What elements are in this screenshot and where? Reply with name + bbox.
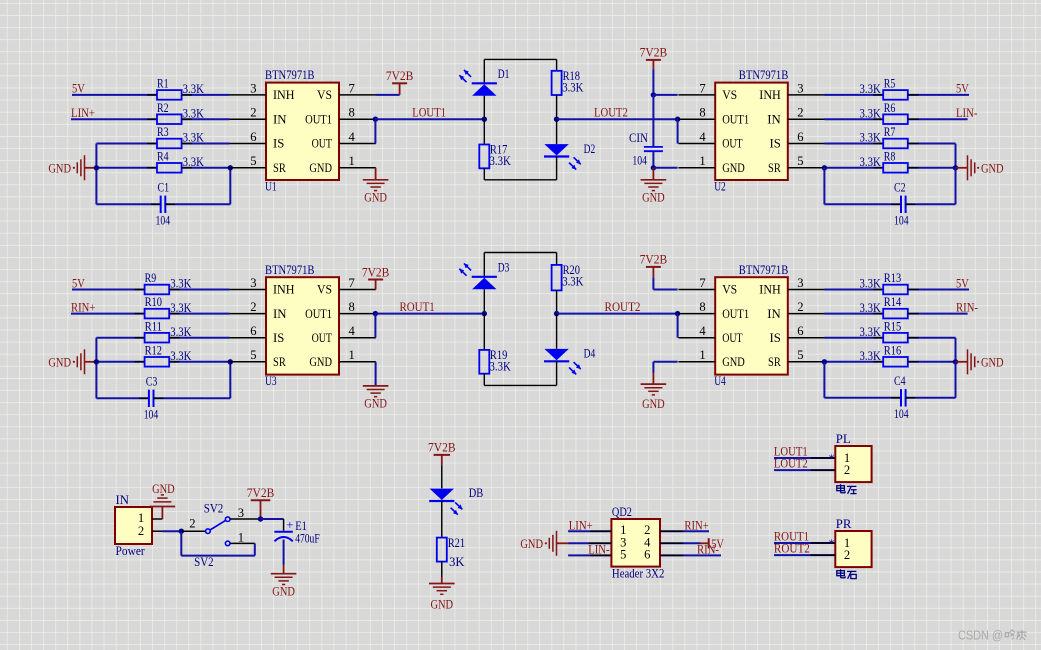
svg-text:R1: R1 [157,77,169,91]
svg-text:104: 104 [144,408,159,422]
U2 pin 6 (IS) right stub [788,143,825,145]
svg-text:5V: 5V [72,275,85,290]
wire DB to R21 [441,501,443,538]
LED DB [430,489,454,500]
svg-text:3: 3 [238,506,244,520]
svg-text:VS: VS [722,283,737,297]
resistor R9 [145,285,170,295]
junction C1 right [228,165,233,170]
svg-text:+: + [286,518,293,532]
svg-text:3: 3 [797,276,803,290]
U2 pin 3 (INH) right stub [788,94,825,96]
svg-text:7V2B: 7V2B [640,46,668,60]
junction bridge right [554,311,559,316]
svg-text:INH: INH [759,283,781,297]
svg-text:6: 6 [797,130,803,144]
junction right pin8 [675,311,680,316]
svg-text:C2: C2 [894,181,906,195]
svg-text:GND: GND [309,161,332,175]
U4 pin 2 (IN) right stub [788,313,825,315]
wire R4 to pin5 [182,167,230,169]
resistor R11 [145,333,170,343]
svg-text:RIN-: RIN- [697,542,719,557]
svg-text:R9: R9 [145,271,157,285]
svg-text:R11: R11 [145,319,162,333]
svg-text:GND: GND [431,598,454,612]
U3 pin 7 (VS) right stub [339,289,376,291]
svg-text:5: 5 [797,348,803,362]
connector IN (Power) body [115,507,152,544]
wire R7 corner [908,143,956,145]
U2 pin 1 (GND) left stub [678,167,715,169]
resistor R6 [883,114,908,124]
svg-text:3.3K: 3.3K [860,106,881,120]
wire pin4 to pin8 node [374,119,376,143]
wire left vertical [95,144,97,205]
svg-text:4: 4 [349,324,356,338]
ground port (left) [85,361,97,363]
junction right gnd [953,165,958,170]
svg-text:Power: Power [116,544,146,558]
svg-text:3: 3 [250,81,256,95]
svg-text:1: 1 [349,348,355,362]
svg-text:LOUT1: LOUT1 [412,105,446,120]
wire 7V2B to U2 pin7 [653,94,677,96]
svg-text:D4: D4 [584,347,596,361]
svg-text:R3: R3 [157,125,169,139]
U3 pin 3 (INH) left stub [229,289,266,291]
svg-text:2: 2 [797,300,803,314]
svg-text:3.3K: 3.3K [562,80,583,94]
U1 pin 4 (OUT) right stub [339,143,376,145]
svg-text:BTN7971B: BTN7971B [739,68,789,82]
resistor R1 [157,90,182,100]
U4 pin 5 (SR) right stub [788,361,825,363]
IC U3 BTN7971B body [266,277,339,374]
U2 pin 7 (VS) left stub [678,94,715,96]
wire R21 to ground [441,562,443,578]
svg-text:GND: GND [272,585,295,599]
svg-text:R16: R16 [884,343,901,357]
svg-text:D2: D2 [584,142,596,156]
wire pin2 to R14 [824,313,883,315]
U2 pin 5 (SR) right stub [788,167,825,169]
svg-text:7V2B: 7V2B [362,265,390,279]
svg-text:3.3K: 3.3K [490,154,511,168]
svg-text:OUT1: OUT1 [722,307,749,321]
IC U4 BTN7971B body [715,277,788,374]
wire D1 anode down [483,96,485,120]
connector QD2 Header 3X2 body [611,519,660,567]
junction 7V2B/CIN [651,92,656,97]
svg-text:SV2: SV2 [194,555,214,569]
svg-text:2: 2 [250,300,256,314]
U3 pin 8 (OUT1) right stub [339,313,376,315]
wire 7V2B to E1 [261,518,284,520]
wire R11 to pin6 [169,337,229,339]
svg-text:OUT: OUT [312,137,333,151]
label dian-you (PR) [837,571,845,576]
svg-text:2: 2 [189,517,195,531]
svg-text:3.3K: 3.3K [860,82,881,96]
svg-text:1: 1 [349,154,355,168]
junction 7V2B switch [258,516,263,521]
svg-text:SV2: SV2 [204,502,224,516]
svg-text:ROUT2: ROUT2 [605,299,641,314]
svg-text:7: 7 [699,276,705,290]
capacitor E1 electrolytic [274,531,292,533]
svg-text:RIN+: RIN+ [684,517,708,532]
svg-text:RIN-: RIN- [956,299,978,314]
resistor R19 [483,314,485,350]
svg-text:SR: SR [768,355,781,369]
svg-text:5: 5 [250,348,256,362]
svg-text:GND: GND [48,161,71,175]
wire ROUT1 to PR pin1 [774,542,835,544]
junction bridge left [482,311,487,316]
svg-text:3.3K: 3.3K [860,301,881,315]
U1 pin 3 (INH) left stub [229,94,266,96]
svg-text:VS: VS [722,88,737,102]
junction pin5 [822,359,827,364]
svg-text:7V2B: 7V2B [247,486,275,500]
wire pin2 to switch node [162,530,181,532]
wire R5 to 5V [908,94,969,96]
wire bridge bottom rail [484,179,556,181]
wire LOUT1 to PL pin1 [774,457,835,459]
svg-text:OUT1: OUT1 [305,307,332,321]
svg-text:U2: U2 [714,180,726,194]
svg-text:GND: GND [722,355,745,369]
svg-text:U4: U4 [714,374,726,388]
svg-text:2: 2 [844,463,850,477]
wire bridge top rail [484,58,556,60]
ground below E1 [283,568,285,574]
ground below R21 [441,577,443,583]
svg-text:OUT1: OUT1 [722,112,749,126]
U4 pin 4 (OUT) left stub [678,337,715,339]
ground left of U4 [652,373,654,385]
svg-text:7V2B: 7V2B [428,441,456,455]
svg-text:GND: GND [642,397,665,411]
svg-text:INH: INH [273,283,295,297]
U4 pin 6 (IS) right stub [788,337,825,339]
LED D4 [556,314,558,349]
svg-text:ROUT2: ROUT2 [774,541,810,556]
svg-text:7V2B: 7V2B [640,253,668,267]
junction right gnd [953,359,958,364]
ground port (left) [85,167,97,169]
svg-text:IN: IN [273,307,287,321]
capacitor C1 [96,203,160,205]
svg-text:R6: R6 [884,101,896,115]
svg-text:GND: GND [981,355,1004,369]
svg-text:VS: VS [317,283,332,297]
svg-text:3.3K: 3.3K [860,155,881,169]
svg-text:LIN-: LIN- [956,105,977,120]
svg-text:7: 7 [349,81,355,95]
wire ROUT1 [375,313,484,315]
wire R14 out [908,313,968,315]
svg-text:5: 5 [797,154,803,168]
svg-text:LOUT2: LOUT2 [594,105,628,120]
U1 pin 8 (OUT1) right stub [339,118,376,120]
U3 pin 2 (IN) left stub [229,313,266,315]
wire LIN- to QD2 pin5 [568,554,611,556]
wire 5V to R9 [72,289,145,291]
resistor R3 [157,139,182,149]
wire D3 anode down [483,289,485,313]
svg-text:5: 5 [620,547,626,561]
svg-text:IN: IN [767,112,781,126]
U4 pin 3 (INH) right stub [788,289,825,291]
ground port (right) [956,167,968,169]
wire pin4 right corner [677,314,679,338]
wire pin1 to gnd [653,167,677,169]
svg-text:104: 104 [632,154,647,168]
svg-text:SR: SR [273,161,286,175]
svg-text:BTN7971B: BTN7971B [739,263,789,277]
svg-text:PR: PR [836,517,852,531]
junction pin5 [822,165,827,170]
svg-text:INH: INH [273,88,295,102]
wire R8 to gnd node [908,167,956,169]
svg-text:104: 104 [894,407,909,421]
U1 pin 2 (IN) left stub [229,118,266,120]
svg-text:R2: R2 [157,101,169,115]
svg-text:6: 6 [250,130,256,144]
svg-text:D1: D1 [498,67,510,81]
wire left vertical [95,338,97,399]
svg-text:*: * [829,536,835,550]
svg-text:R5: R5 [884,77,896,91]
junction bridge right [554,117,559,122]
wire E1 to ground [283,540,285,565]
junction left gnd [94,359,99,364]
svg-text:8: 8 [349,106,355,120]
resistor R16 [883,357,908,367]
svg-text:GND: GND [309,355,332,369]
wire pin6 to R7 [824,143,883,145]
svg-text:3: 3 [250,276,256,290]
svg-text:R4: R4 [157,149,169,163]
svg-text:470uF: 470uF [295,532,320,546]
svg-text:3: 3 [797,81,803,95]
svg-text:R15: R15 [884,319,901,333]
svg-text:2: 2 [797,106,803,120]
wire gnd junction to R4 [96,167,157,169]
wire R13 to 5V [908,289,969,291]
svg-text:104: 104 [156,214,171,228]
wire 5V to R1 [72,94,157,96]
svg-text:3K: 3K [449,555,464,569]
svg-text:LIN+: LIN+ [569,517,593,532]
wire R10 to pin2 [169,313,229,315]
ground below CIN [652,168,654,180]
svg-text:7: 7 [349,276,355,290]
ground at U3 pin1 [375,362,377,386]
wire LIN+ to QD2 pin1 [568,530,611,532]
capacitor C4 loop [823,362,825,398]
power port 7V2B (U4) [646,266,661,268]
resistor R17 [483,119,485,144]
U4 pin 8 (OUT1) left stub [678,313,715,315]
svg-text:104: 104 [894,214,909,228]
U1 pin 6 (IS) left stub [229,143,266,145]
ground port (QD2) [557,542,569,544]
U4 pin 7 (VS) left stub [678,289,715,291]
svg-text:IN: IN [273,112,287,126]
svg-text:3.3K: 3.3K [562,275,583,289]
wire pin8 node [373,311,378,316]
wire ROUT2 [557,313,678,315]
svg-text:BTN7971B: BTN7971B [265,68,315,82]
resistor R10 [145,309,170,319]
junction right pin8 [675,117,680,122]
resistor R8 [883,163,908,173]
svg-text:INH: INH [759,88,781,102]
LED D2 [556,119,558,144]
U3 pin 6 (IS) left stub [229,337,266,339]
wire 7V2B to DB [441,465,443,488]
svg-text:GND: GND [364,191,387,205]
wire R15 corner [908,337,956,339]
svg-text:QD2: QD2 [612,505,632,519]
IC U2 BTN7971B body [715,83,788,180]
svg-text:CSDN @: CSDN @ [958,628,1003,643]
wire R6 out [908,118,968,120]
wire pin2 to R6 [824,118,883,120]
wire switch loop [254,543,256,555]
Power pin 1 stub [152,518,162,520]
capacitor C3 [96,397,149,399]
svg-text:4: 4 [699,324,706,338]
junction CIN bottom [651,165,656,170]
wire pin6 to R15 [824,337,883,339]
switch SV2 lower (pin 1) [225,541,230,546]
LED D3 [483,253,485,277]
wire R2 to pin2 [182,118,230,120]
resistor R18 [556,59,558,70]
wire ROUT2 to PR pin2 [774,554,835,556]
wire corner to R3 [96,143,157,145]
LED D1 [483,59,485,83]
svg-text:C3: C3 [146,375,158,389]
connector PL body [835,446,871,482]
svg-text:SR: SR [768,161,781,175]
wire bridge top rail [484,252,556,254]
svg-text:3.3K: 3.3K [860,277,881,291]
svg-text:5V: 5V [956,81,969,96]
resistor R5 [883,90,908,100]
svg-text:GND: GND [152,482,175,496]
wire pin1 to gnd corner [653,361,677,363]
svg-text:R14: R14 [884,295,902,309]
svg-text:OUT: OUT [312,331,333,345]
svg-text:6: 6 [250,324,256,338]
U3 pin 5 (SR) left stub [229,361,266,363]
U3 pin 1 (GND) right stub [339,361,376,363]
wire bridge bottom rail [484,384,556,386]
wire R1 to U1 pin3 [182,94,230,96]
svg-text:R21: R21 [448,536,465,550]
wire pin3 to R5 [824,94,883,96]
wire right vertical of C3 [229,362,231,399]
svg-text:LIN-: LIN- [588,542,609,557]
U2 pin 4 (OUT) left stub [678,143,715,145]
svg-text:CIN: CIN [629,131,648,145]
svg-text:PL: PL [836,432,851,446]
power port 7V2B (U2) [646,59,661,61]
svg-text:BTN7971B: BTN7971B [265,263,315,277]
svg-text:8: 8 [699,300,705,314]
U1 pin 5 (SR) left stub [229,167,266,169]
svg-text:IS: IS [770,137,781,151]
junction left gnd [94,165,99,170]
svg-text:U3: U3 [265,374,277,388]
ground above Power (flipped) [161,507,163,520]
svg-text:U1: U1 [265,180,277,194]
capacitor CIN vertical [652,95,654,147]
svg-text:7: 7 [699,81,705,95]
Power pin 2 stub [152,530,162,532]
U4 pin 1 (GND) left stub [678,361,715,363]
svg-text:7V2B: 7V2B [386,69,414,83]
wire QD2 pin6 to RIN- [660,554,721,556]
wire gnd junction to R12 [96,361,144,363]
wire R12 to pin5 [169,361,229,363]
svg-text:GND: GND [364,397,387,411]
resistor R20 [556,253,558,265]
svg-text:2: 2 [250,106,256,120]
svg-text:6: 6 [644,547,650,561]
svg-text:2: 2 [138,524,144,538]
wire input to R2 [71,118,157,120]
connector PR body [835,531,871,567]
resistor R21 [437,538,447,562]
svg-text:D3: D3 [498,261,510,275]
svg-text:1: 1 [699,348,705,362]
wire corner to R11 [96,337,144,339]
wire LOUT2 [557,118,678,120]
svg-text:Header 3X2: Header 3X2 [612,566,665,580]
power port 7V2B (switch) [251,499,271,501]
svg-text:IN: IN [767,307,781,321]
ground port (right) [956,361,968,363]
svg-text:GND: GND [981,161,1004,175]
switch SV2 upper (pins 2-3) [181,530,206,532]
svg-text:C4: C4 [894,374,906,388]
wire input to R10 [71,313,145,315]
wire pin8 node [373,117,378,122]
resistor R7 [883,139,908,149]
svg-text:1: 1 [238,530,244,544]
junction bridge left [482,117,487,122]
U2 pin 8 (OUT1) left stub [678,118,715,120]
svg-text:1: 1 [699,154,705,168]
svg-text:3.3K: 3.3K [490,360,511,374]
svg-text:8: 8 [699,106,705,120]
U3 pin 4 (OUT) right stub [339,337,376,339]
resistor R2 [157,114,182,124]
svg-text:4: 4 [699,130,706,144]
svg-text:IN: IN [116,493,130,507]
resistor R13 [883,285,908,295]
svg-text:R12: R12 [145,343,162,357]
svg-text:IS: IS [770,331,781,345]
resistor R4 [157,163,182,173]
svg-text:2: 2 [844,548,850,562]
